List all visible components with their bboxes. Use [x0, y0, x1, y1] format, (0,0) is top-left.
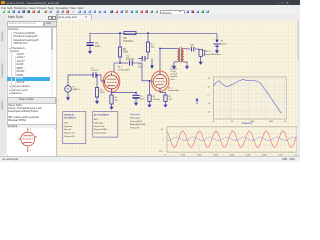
svg-text:8=1kOhm: 8=1kOhm [124, 41, 134, 43]
transient diagram frame [167, 127, 297, 152]
wire plate2 riser [159, 48, 161, 72]
wire C3 to grid2 [132, 63, 151, 81]
wire R4 to ground [96, 97, 98, 100]
wire rail to R2 [119, 33, 121, 47]
wire C7 to speaker [195, 48, 199, 50]
ground V1 [67, 96, 69, 98]
svg-text:5VAC/1: 5VAC/1 [73, 88, 81, 91]
svg-text:-10: -10 [208, 103, 211, 105]
wire rail to R3 [147, 33, 149, 42]
wire V9 ground [216, 47, 218, 49]
wire cathode2 [160, 91, 165, 95]
svg-text:AdB=dB(abs(W)): AdB=dB(abs(W)) [130, 123, 146, 126]
svg-text:V4_1: V4_1 [118, 67, 124, 69]
svg-text:0: 0 [208, 95, 209, 97]
svg-text:470u: 470u [95, 46, 101, 48]
ground R9 [149, 103, 151, 105]
node dot rail-R1 [119, 32, 120, 33]
svg-text:Comp=6p6s: Comp=6p6s [168, 90, 179, 92]
wire V1 riser [67, 75, 69, 86]
svg-text:1=0.47u: 1=0.47u [126, 59, 135, 61]
ground C5 [135, 101, 137, 103]
svg-text:Camp=SML60mm: Camp=SML60mm [205, 54, 221, 56]
svg-text:TRAF: TRAF [171, 65, 177, 68]
ac response curve [213, 79, 281, 113]
svg-text:Type=log: Type=log [94, 122, 104, 124]
triode V4_1 [105, 75, 119, 89]
canvas v scrollbar [297, 20, 300, 156]
source V1 [65, 86, 72, 93]
svg-text:Stop=5 ms: Stop=5 ms [64, 132, 75, 135]
node dot cathode1 [135, 92, 136, 93]
svg-text:simulation: simulation [64, 116, 76, 120]
wire to C2 [89, 33, 91, 42]
wire node to probe arrow [151, 59, 153, 66]
svg-text:10M: 10M [269, 121, 273, 123]
wire V1 to ground [67, 92, 69, 96]
node dot rail-R3 [147, 32, 148, 33]
annotation ellipse tube1 [103, 71, 120, 92]
wire transformer right bottom ground [186, 62, 188, 65]
svg-text:910k: 910k [123, 52, 129, 54]
capacitor C7 2uF [191, 47, 193, 52]
wire C5 drop [135, 93, 137, 95]
svg-text:-20: -20 [208, 112, 211, 114]
wire C6 to arrow [138, 58, 142, 60]
toolbar [0, 9, 300, 15]
dock body [6, 14, 57, 155]
wire transformer to C7 [187, 48, 190, 50]
source V9 bars [213, 43, 220, 45]
wire transformer left bottom ground [173, 62, 175, 65]
menu bar [0, 5, 300, 9]
wire R9 ground [149, 101, 151, 103]
svg-text:KVout=dB(V): KVout=dB(V) [130, 120, 142, 123]
svg-text:Norma(Qx): Norma(Qx) [130, 116, 141, 119]
node dot input-R4 [96, 74, 97, 75]
node dot plate2 [159, 48, 160, 49]
svg-text:10: 10 [208, 86, 210, 88]
ground R7 [165, 103, 167, 105]
wire R5 ground [111, 104, 113, 105]
svg-text:Points=1001: Points=1001 [94, 132, 107, 135]
svg-text:A=0.33: A=0.33 [171, 67, 177, 70]
ground C2 [89, 50, 91, 52]
wire C5 ground [135, 98, 137, 101]
wire grid2 to R9 [149, 81, 151, 95]
transformer TRAF1 [177, 48, 183, 61]
ac response diagram frame [213, 77, 286, 119]
svg-text:Start=1 Hz: Start=1 Hz [94, 125, 104, 128]
wire C4 to grid1 [97, 75, 104, 81]
svg-text:-0.4: -0.4 [159, 150, 162, 152]
wire R4 drop [96, 75, 98, 87]
symbol preview [7, 128, 58, 157]
description box [7, 103, 58, 126]
tree scrollbar [51, 28, 54, 96]
wire plate node to C3 [120, 62, 128, 64]
transient simulation box [63, 112, 86, 144]
capacitor C4 [93, 72, 96, 77]
svg-text:1k: 1k [231, 121, 233, 123]
svg-text:P=Vout/Rl: P=Vout/Rl [130, 127, 140, 130]
svg-text:Stop=10 MHz: Stop=10 MHz [94, 128, 107, 131]
resistor R4 [95, 87, 98, 96]
svg-text:ac simulation: ac simulation [94, 113, 110, 117]
prop button [7, 97, 56, 104]
svg-text:frequency: frequency [242, 122, 253, 125]
transient plot grid [167, 127, 297, 152]
svg-text:Points=201: Points=201 [64, 135, 76, 138]
node dot plate [119, 62, 120, 63]
resistor R5 [110, 95, 113, 104]
svg-text:Nomine(x): Nomine(x) [130, 114, 140, 116]
dock header [8, 15, 23, 19]
wire input [68, 74, 93, 76]
ground V9 [216, 49, 218, 51]
capacitor C3 coupling [129, 60, 132, 65]
wire R2 to plate node [114, 57, 120, 63]
svg-text:10: 10 [212, 121, 214, 123]
capacitor C5 [132, 94, 139, 96]
svg-text:1k5Ohm: 1k5Ohm [153, 99, 161, 101]
ground R4 [96, 100, 98, 102]
wire C2 to ground [89, 46, 91, 50]
svg-text:0: 0 [163, 139, 164, 141]
svg-text:U=250: U=250 [221, 44, 228, 46]
resistor R8 [124, 31, 136, 34]
svg-text:Type=lin: Type=lin [64, 126, 73, 128]
wire plate2 to transformer [160, 47, 174, 49]
wire R3 to C6 [146, 52, 148, 59]
svg-text:V5_1: V5_1 [168, 87, 174, 89]
transient input waveform [167, 137, 296, 141]
vertical tab strip [0, 14, 7, 155]
capacitor C2 [86, 42, 93, 44]
wire rail corner to V9 [216, 33, 218, 39]
resistor R9 [148, 95, 151, 101]
search box [7, 21, 44, 28]
title bar [0, 0, 300, 5]
triode V5_1 [153, 74, 167, 88]
source V9 arrow [215, 40, 218, 43]
transient output waveform [167, 131, 296, 147]
tree [7, 27, 57, 98]
svg-text:1=0.47u: 1=0.47u [91, 70, 99, 72]
wire speaker ground [200, 56, 202, 60]
wire B+ top rail [90, 32, 217, 34]
resistor R2 plate load [118, 47, 121, 57]
speaker SPK_1 [199, 49, 202, 56]
annotation ellipse tube2 [151, 71, 169, 91]
resistor R3 [146, 42, 149, 52]
probe arrow [196, 100, 198, 104]
tab bar [57, 14, 300, 21]
Symbol label [8, 124, 18, 128]
canvas [57, 20, 300, 156]
ground R5 [111, 105, 113, 107]
ac simulation box [93, 112, 118, 137]
node dot grid2 [149, 80, 150, 81]
wire tube V4 plate [113, 63, 115, 73]
svg-text:Rs=1: Rs=1 [171, 79, 175, 81]
tube symbol preview 6P6S [18, 126, 37, 152]
svg-text:Start=0: Start=0 [64, 128, 72, 131]
svg-text:SPK_1: SPK_1 [205, 51, 211, 53]
ac plot grid [213, 77, 286, 119]
wire cathode1 [112, 91, 136, 95]
svg-text:20: 20 [208, 78, 210, 80]
status bar [0, 156, 300, 162]
svg-text:R7: R7 [169, 96, 172, 98]
wire R7 ground [165, 101, 167, 103]
capacitor C6 [142, 56, 145, 61]
svg-text:0.4: 0.4 [161, 129, 163, 131]
resistor R7 [164, 95, 167, 101]
svg-text:Comp=QU6T: Comp=QU6T [118, 69, 131, 71]
